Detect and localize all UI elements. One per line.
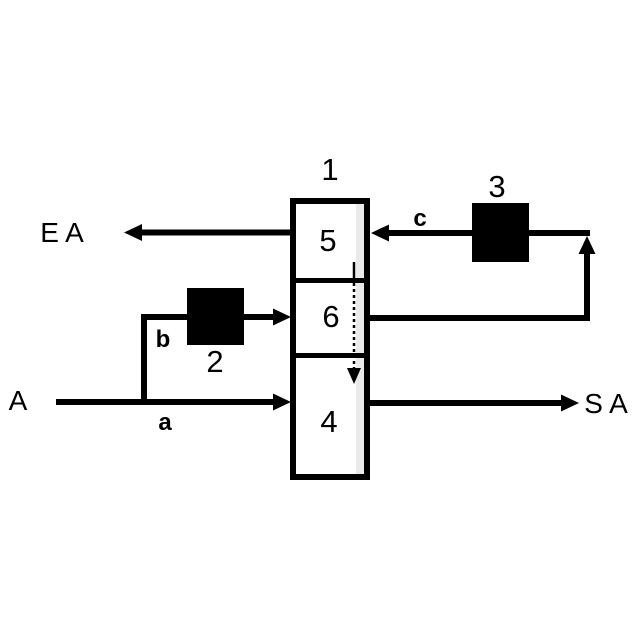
arrowhead b bbox=[273, 309, 291, 326]
divider between cell 6 and cell 4 bbox=[290, 353, 370, 358]
svg-text:4: 4 bbox=[320, 404, 337, 439]
wire A / a arrow shaft bbox=[56, 399, 278, 405]
feedback wire vertical riser bbox=[584, 250, 590, 321]
svg-text:5: 5 bbox=[319, 223, 336, 258]
wire b arrow shaft (through box 2 into cell 6) bbox=[141, 314, 278, 320]
svg-text:2: 2 bbox=[206, 344, 223, 379]
register block 1 (outer box) bbox=[293, 201, 367, 477]
svg-text:1: 1 bbox=[321, 152, 338, 187]
svg-text:S A: S A bbox=[584, 388, 628, 419]
wire E A arrow shaft bbox=[140, 230, 290, 236]
svg-text:A: A bbox=[9, 385, 28, 416]
svg-text:a: a bbox=[158, 409, 172, 436]
arrowhead feedback up bbox=[579, 236, 596, 254]
feedback wire from cell 6 (horizontal) bbox=[367, 315, 587, 321]
divider between cell 5 and cell 6 bbox=[290, 278, 370, 283]
box 2 (black square) bbox=[187, 288, 244, 345]
svg-text:b: b bbox=[156, 326, 171, 353]
box 3 (black square) bbox=[472, 203, 529, 262]
arrowhead c bbox=[371, 225, 389, 242]
arrowhead dashed bbox=[347, 368, 361, 384]
wire branch vertical from a line up to b line bbox=[141, 317, 147, 402]
svg-text:E A: E A bbox=[40, 217, 84, 248]
dashed shift arrow (from cell 5 down into cell 4) bbox=[353, 262, 356, 283]
wire c arrow shaft (from corner through box 3 into cell 5) bbox=[382, 230, 590, 236]
svg-text:c: c bbox=[413, 205, 426, 232]
scan artifact stripe inside right edge bbox=[356, 204, 364, 474]
svg-text:3: 3 bbox=[488, 169, 505, 204]
arrowhead E A bbox=[124, 224, 142, 241]
arrowhead a bbox=[273, 394, 291, 411]
arrowhead S A bbox=[561, 395, 579, 412]
svg-text:6: 6 bbox=[322, 299, 339, 334]
wire S A arrow shaft bbox=[370, 400, 563, 406]
